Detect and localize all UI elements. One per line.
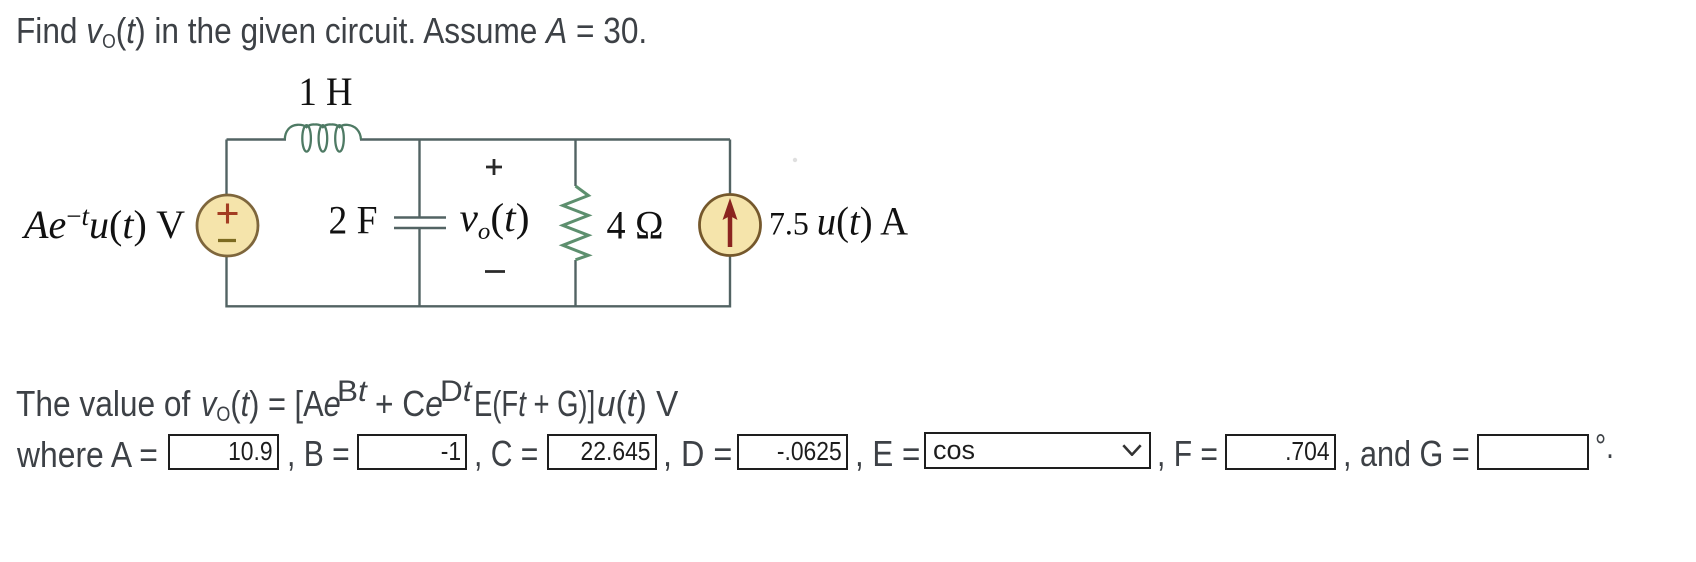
svg-text:vo(t): vo(t): [460, 195, 530, 245]
wire capacitor branch: [418, 140, 420, 308]
input A: [168, 434, 279, 471]
voltage source plus: [218, 204, 238, 224]
current source arrow: [728, 214, 733, 247]
svg-text:1 H: 1 H: [299, 69, 353, 114]
node minus sign below vo: [485, 270, 505, 273]
svg-text:2 F: 2 F: [329, 198, 378, 243]
circuit schematic: [0, 0, 960, 350]
wire right: [729, 140, 731, 308]
input G: [1477, 434, 1590, 471]
input F: [1225, 434, 1336, 471]
wire left: [225, 140, 227, 308]
resistor R1 zigzag: [563, 186, 589, 260]
input C: [547, 434, 657, 471]
wire resistor branch: [574, 140, 576, 308]
select chevron: [1122, 444, 1142, 456]
where line: [17, 434, 158, 476]
input D: [737, 434, 849, 471]
select E: [924, 432, 1151, 469]
inductor L1 coil: [285, 124, 361, 151]
title: [16, 10, 647, 52]
formula line: [16, 383, 190, 425]
input B: [357, 434, 467, 471]
voltage source minus: [218, 239, 236, 242]
current source I1 circle: [700, 195, 761, 256]
wire bottom: [227, 305, 731, 307]
wire top: [227, 138, 731, 140]
capacitor C1 plates: [394, 218, 446, 229]
stray faint mark: [793, 158, 797, 162]
voltage source V1 circle: [197, 195, 258, 256]
svg-text:Ae−tu(t) V: Ae−tu(t) V: [21, 201, 185, 247]
node plus sign above vo: [486, 159, 502, 175]
svg-text:4 Ω: 4 Ω: [607, 203, 664, 248]
svg-text:7.5 u(t) A: 7.5 u(t) A: [769, 199, 908, 244]
